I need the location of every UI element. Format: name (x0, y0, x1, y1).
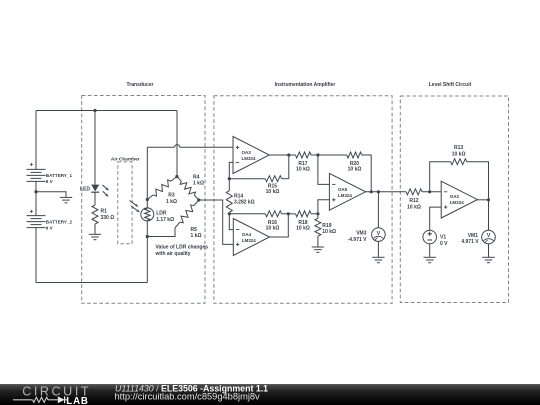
resistor R19 (315, 214, 336, 247)
node bridge left (146, 198, 149, 201)
svg-text:1 kΩ: 1 kΩ (193, 180, 204, 186)
svg-text:OA5: OA5 (338, 187, 348, 192)
node OA2 output junction (487, 198, 490, 201)
wire OA4 output feedback (270, 214, 289, 237)
wire to supply ground (36, 192, 66, 198)
resistor R13 (430, 145, 489, 200)
voltage source V1 (423, 230, 448, 247)
op-amp OA3 (233, 137, 269, 174)
svg-text:LM324: LM324 (450, 200, 465, 205)
node R16 R18 junction (287, 212, 290, 215)
svg-text:LDR: LDR (156, 210, 167, 216)
wire bridge right node to OA4 noninverting input (199, 200, 234, 244)
voltmeter VM3 (348, 228, 386, 243)
wire OA5 output (366, 191, 407, 193)
battery BATTERY_2 (27, 210, 73, 231)
svg-text:Transducer: Transducer (127, 82, 154, 88)
resistor R16 (229, 211, 288, 232)
svg-text:LM324: LM324 (338, 193, 353, 198)
wire R1 to ground (94, 224, 96, 234)
node R12 R13 junction (428, 190, 431, 193)
wire VM1 to ground (488, 244, 490, 257)
LED diode (80, 185, 109, 197)
wire riser to bridge bottom (146, 237, 148, 283)
ground R19 (312, 247, 324, 252)
battery BATTERY_1 (27, 163, 73, 184)
air chamber dashed box (111, 156, 140, 243)
svg-text:http://circuitlab.com/c859g4b8: http://circuitlab.com/c859g4b8jmj8v (115, 391, 261, 401)
node junction top rail to LED branch (93, 109, 96, 112)
op-amp OA4 (233, 219, 269, 256)
wire VM1 drop (488, 200, 490, 230)
svg-text:Air Chamber: Air Chamber (111, 156, 140, 162)
ground VM3 (372, 257, 384, 262)
ground supply midpoint (60, 197, 72, 202)
svg-text:0 V: 0 V (440, 241, 448, 247)
section box: Level Shift Circuit (400, 82, 508, 303)
ground LED branch (89, 234, 101, 239)
svg-text:OA2: OA2 (450, 194, 460, 199)
wire LDR bottom lead (146, 220, 148, 236)
svg-text:1 kΩ: 1 kΩ (191, 233, 202, 239)
svg-text:LED: LED (80, 186, 90, 192)
section box: Instrumentation Amplifier (214, 82, 392, 303)
resistor R1 (92, 205, 114, 224)
svg-text:Instrumentation Amplifier: Instrumentation Amplifier (275, 82, 336, 88)
wire LED branch drop (94, 111, 96, 185)
svg-text:1.17 kΩ: 1.17 kΩ (156, 217, 174, 223)
resistor R17 (296, 152, 347, 172)
svg-text:BATTERY_1: BATTERY_1 (46, 173, 73, 178)
resistor R12 (406, 189, 441, 211)
resistor R18 (288, 211, 318, 232)
wire VM3 to ground (377, 241, 379, 257)
wire left column bottom (35, 228, 37, 283)
node OA3 feedback junction (228, 177, 231, 180)
svg-text:10 kΩ: 10 kΩ (296, 166, 310, 172)
svg-text:R5: R5 (191, 227, 198, 233)
wire R5 to bridge bottom (147, 228, 175, 237)
op-amp OA5 (329, 173, 365, 210)
svg-text:VM3: VM3 (356, 230, 367, 236)
svg-text:with air quality: with air quality (155, 251, 191, 257)
svg-text:VM1: VM1 (468, 233, 479, 239)
svg-text:Level Shift Circuit: Level Shift Circuit (429, 82, 472, 88)
svg-text:R3: R3 (168, 192, 175, 198)
svg-text:9 V: 9 V (46, 179, 54, 184)
svg-text:4.971 V: 4.971 V (461, 239, 479, 245)
node OA5 output R20 junction (370, 190, 373, 193)
svg-text:V: V (487, 233, 491, 239)
wire OA3 inverting input (229, 162, 233, 178)
svg-text:Value of LDR changes: Value of LDR changes (156, 244, 209, 250)
svg-text:R12: R12 (409, 198, 418, 204)
svg-text:-4.971 V: -4.971 V (348, 237, 368, 243)
svg-text:330 Ω: 330 Ω (101, 215, 115, 221)
svg-text:10 kΩ: 10 kΩ (266, 226, 280, 232)
node OA3 output to R15 (287, 153, 290, 156)
op-amp OA2 (441, 181, 477, 218)
svg-text:OA4: OA4 (242, 232, 252, 237)
node bridge top (175, 175, 178, 178)
wire OA5 noninverting input (318, 200, 330, 214)
wire LDR top lead (146, 200, 148, 209)
node R17 R20 junction (316, 153, 319, 156)
svg-text:R14: R14 (234, 193, 243, 199)
wire bridge excitation drop (176, 111, 178, 177)
node bridge right (197, 198, 200, 201)
resistor R15 (229, 155, 288, 195)
wire bridge left node to OA3 noninverting input (147, 145, 233, 200)
ground V1 (424, 257, 436, 262)
svg-text:R13: R13 (454, 145, 463, 151)
svg-text:R1: R1 (101, 208, 108, 214)
wire left column top (35, 111, 37, 170)
wire LED to R1 (94, 192, 96, 205)
resistor R20 (347, 152, 371, 192)
wire between batteries (35, 181, 37, 215)
wire VM3 drop (377, 192, 379, 228)
svg-text:10 kΩ: 10 kΩ (266, 189, 280, 195)
resistor R14 (226, 179, 254, 214)
svg-text:10 kΩ: 10 kΩ (322, 229, 336, 235)
wire bottom rail (36, 282, 147, 284)
svg-text:LM324: LM324 (242, 156, 257, 161)
svg-text:10 kΩ: 10 kΩ (452, 152, 466, 158)
svg-text:3.282 kΩ: 3.282 kΩ (234, 200, 255, 206)
svg-text:1 kΩ: 1 kΩ (166, 199, 177, 205)
wire top rail (36, 110, 177, 112)
svg-text:R19: R19 (322, 223, 331, 229)
wire OA3 output (269, 154, 295, 156)
svg-text:V: V (377, 231, 381, 237)
svg-text:10 kΩ: 10 kΩ (348, 166, 362, 172)
resistor R3 (147, 177, 177, 205)
wire OA5 inverting input (318, 155, 330, 184)
resistor R5 (175, 200, 201, 239)
svg-text:10 kΩ: 10 kΩ (296, 226, 310, 232)
node R18 R19 junction (316, 212, 319, 215)
svg-text:OA3: OA3 (242, 150, 252, 155)
section box: Transducer (82, 82, 205, 303)
node bridge bottom (146, 235, 149, 238)
svg-text:9 V: 9 V (46, 225, 54, 230)
ground VM1 (482, 257, 494, 262)
wire OA2 output (477, 199, 488, 201)
voltmeter VM1 (461, 230, 495, 245)
annotation LDR note (155, 244, 209, 257)
photoresistor LDR (130, 201, 175, 223)
wire OA4 inverting input (229, 214, 233, 230)
node R14 bottom junction (228, 212, 231, 215)
svg-text:LM324: LM324 (242, 238, 257, 243)
resistor R4 (177, 175, 204, 200)
svg-text:LAB: LAB (66, 396, 88, 405)
node junction battery midpoint (34, 190, 37, 193)
wire OA2 noninverting to V1 (430, 207, 442, 230)
svg-text:V1: V1 (440, 235, 446, 241)
node OA5 output VM3 junction (377, 190, 380, 193)
wire V1 to ground (429, 244, 431, 257)
svg-text:10 kΩ: 10 kΩ (407, 204, 421, 210)
svg-text:BATTERY_2: BATTERY_2 (46, 219, 73, 224)
